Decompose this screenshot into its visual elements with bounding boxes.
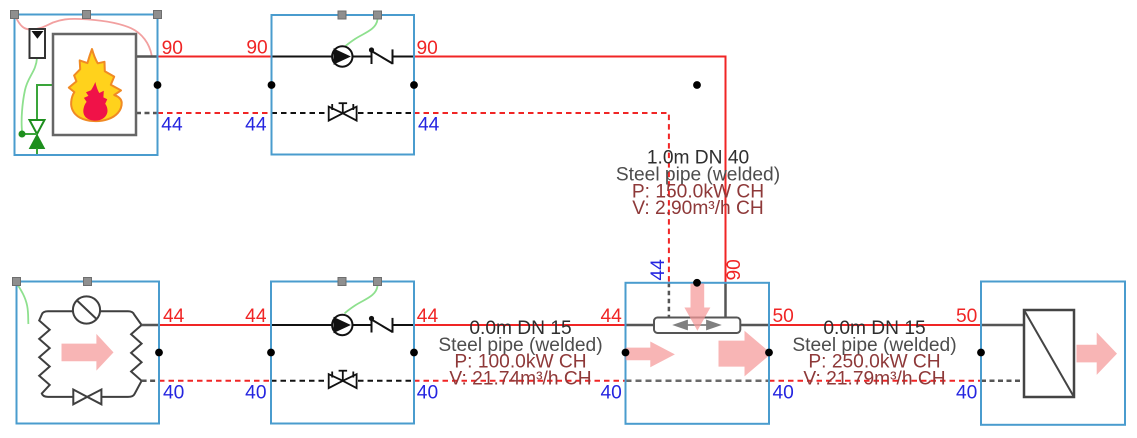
gate valve bottom xyxy=(329,371,357,388)
check valve bottom xyxy=(369,316,393,333)
svg-text:90: 90 xyxy=(162,38,183,59)
box3 blue border xyxy=(17,282,160,424)
svg-text:40: 40 xyxy=(956,383,977,404)
return stub gray dashed box3 xyxy=(142,380,159,383)
return stub gray dashed boiler to border xyxy=(136,112,158,115)
wire supply red box2 to corner and down to box5 xyxy=(414,57,726,283)
pump P1 xyxy=(332,46,352,66)
pink control curve from handle to supply xyxy=(16,17,152,56)
flame inner crimson xyxy=(83,82,107,121)
svg-text:50: 50 xyxy=(773,306,794,327)
gray stub right box5 xyxy=(740,324,769,327)
svg-text:40: 40 xyxy=(163,383,184,404)
handle square box1 right xyxy=(154,11,162,19)
handle square box3 middle xyxy=(84,278,92,286)
return line black dashed through box2 xyxy=(272,112,327,114)
handle square box1 left xyxy=(11,11,19,19)
node box4 right xyxy=(410,349,418,357)
svg-text:40: 40 xyxy=(245,383,266,404)
wire supply red box4-box5 xyxy=(414,324,626,326)
wire return red dashed box4-box5 xyxy=(414,380,626,382)
handle square box3 left xyxy=(13,278,21,286)
node box6 left xyxy=(977,349,985,357)
radiator pump circle xyxy=(73,296,100,323)
svg-text:44: 44 xyxy=(417,306,439,327)
pump P2 xyxy=(332,315,352,335)
wire supply red box3-box4 xyxy=(159,324,271,326)
box4 blue border xyxy=(271,282,414,424)
gray dashed drop inside box5 xyxy=(668,283,671,318)
pink big right arrow box5 xyxy=(719,331,772,377)
handle square box4 right xyxy=(374,278,382,286)
safety valve SV green xyxy=(19,120,45,155)
svg-text:44: 44 xyxy=(245,114,267,135)
radiator circuit outline xyxy=(39,311,141,397)
gray stub supply box6 xyxy=(981,324,1024,327)
svg-text:V: 21.74m³/h CH: V: 21.74m³/h CH xyxy=(449,368,591,389)
gray supply drop inside box5 xyxy=(724,283,727,318)
green pipe boiler to safety valve xyxy=(37,85,53,120)
handle square box4 center xyxy=(338,278,346,286)
wire return red dashed box1-box2 xyxy=(158,112,272,114)
wire return red dashed box5-box6 xyxy=(769,380,981,382)
handle square box1 middle xyxy=(83,11,91,19)
heat exchanger body xyxy=(1024,310,1074,397)
gray dashed stub box6 xyxy=(981,380,1024,383)
svg-text:44: 44 xyxy=(161,114,183,135)
pink down arrow box5 xyxy=(684,284,710,331)
gray dashed across box5 xyxy=(626,380,770,383)
node box5 left xyxy=(622,349,630,357)
svg-text:V: 2.90m³/h CH: V: 2.90m³/h CH xyxy=(632,198,764,219)
svg-text:44: 44 xyxy=(163,306,185,327)
box2 blue border xyxy=(272,15,415,155)
supply line black through box4 xyxy=(271,324,332,326)
handle square box2 right xyxy=(374,11,382,19)
supply stub gray boiler to border xyxy=(136,55,158,58)
svg-text:90: 90 xyxy=(417,38,438,59)
svg-text:90: 90 xyxy=(246,38,267,59)
box6 blue border xyxy=(981,282,1125,425)
node floating top right xyxy=(693,81,701,89)
wire return red dashed box2 to corner down to box5 xyxy=(414,113,669,283)
radiator bottom valve xyxy=(73,390,87,405)
gate valve top xyxy=(329,103,357,120)
svg-text:V: 21.79m³/h CH: V: 21.79m³/h CH xyxy=(803,368,945,389)
wire supply red box1-box2 xyxy=(158,56,272,58)
manifold body xyxy=(654,318,740,334)
handle square box2 center xyxy=(338,11,346,19)
svg-text:40: 40 xyxy=(600,383,621,404)
check valve top xyxy=(369,47,393,64)
boiler body xyxy=(53,34,136,135)
node box4 left xyxy=(267,349,275,357)
green control curve to pump box4 xyxy=(345,286,378,314)
light green curve vessel to drain dot xyxy=(22,58,37,131)
node box1 out xyxy=(154,81,162,89)
expansion vessel xyxy=(30,29,46,58)
svg-text:90: 90 xyxy=(724,259,745,280)
green control curve box3 xyxy=(17,283,29,324)
flame outer yellow xyxy=(69,49,122,121)
node box3 out xyxy=(155,349,163,357)
svg-text:40: 40 xyxy=(417,383,438,404)
box5 blue border xyxy=(626,283,770,424)
box1 blue border xyxy=(15,15,158,156)
node box2 right xyxy=(410,81,418,89)
supply line black through box2 xyxy=(272,56,333,58)
gray stub left box5 xyxy=(626,324,655,327)
svg-text:44: 44 xyxy=(600,306,622,327)
supply stub gray box3 xyxy=(142,324,159,327)
svg-text:44: 44 xyxy=(245,306,267,327)
pink flow arrow box3 xyxy=(62,334,114,371)
svg-text:50: 50 xyxy=(956,306,977,327)
pink arrow box6 xyxy=(1077,332,1118,375)
wire return red dashed box3-box4 xyxy=(159,380,271,382)
pink small right arrow box5 xyxy=(626,342,675,368)
green control curve to pump xyxy=(345,20,378,48)
wire supply red box5-box6 xyxy=(769,324,981,326)
node box5 right xyxy=(765,349,773,357)
svg-text:44: 44 xyxy=(648,259,669,281)
return line black dashed through box4 xyxy=(271,380,326,382)
svg-text:40: 40 xyxy=(773,383,794,404)
manifold double arrow xyxy=(675,321,719,329)
node box2 left xyxy=(268,81,276,89)
node box5 top xyxy=(693,279,701,287)
svg-text:44: 44 xyxy=(418,114,440,135)
